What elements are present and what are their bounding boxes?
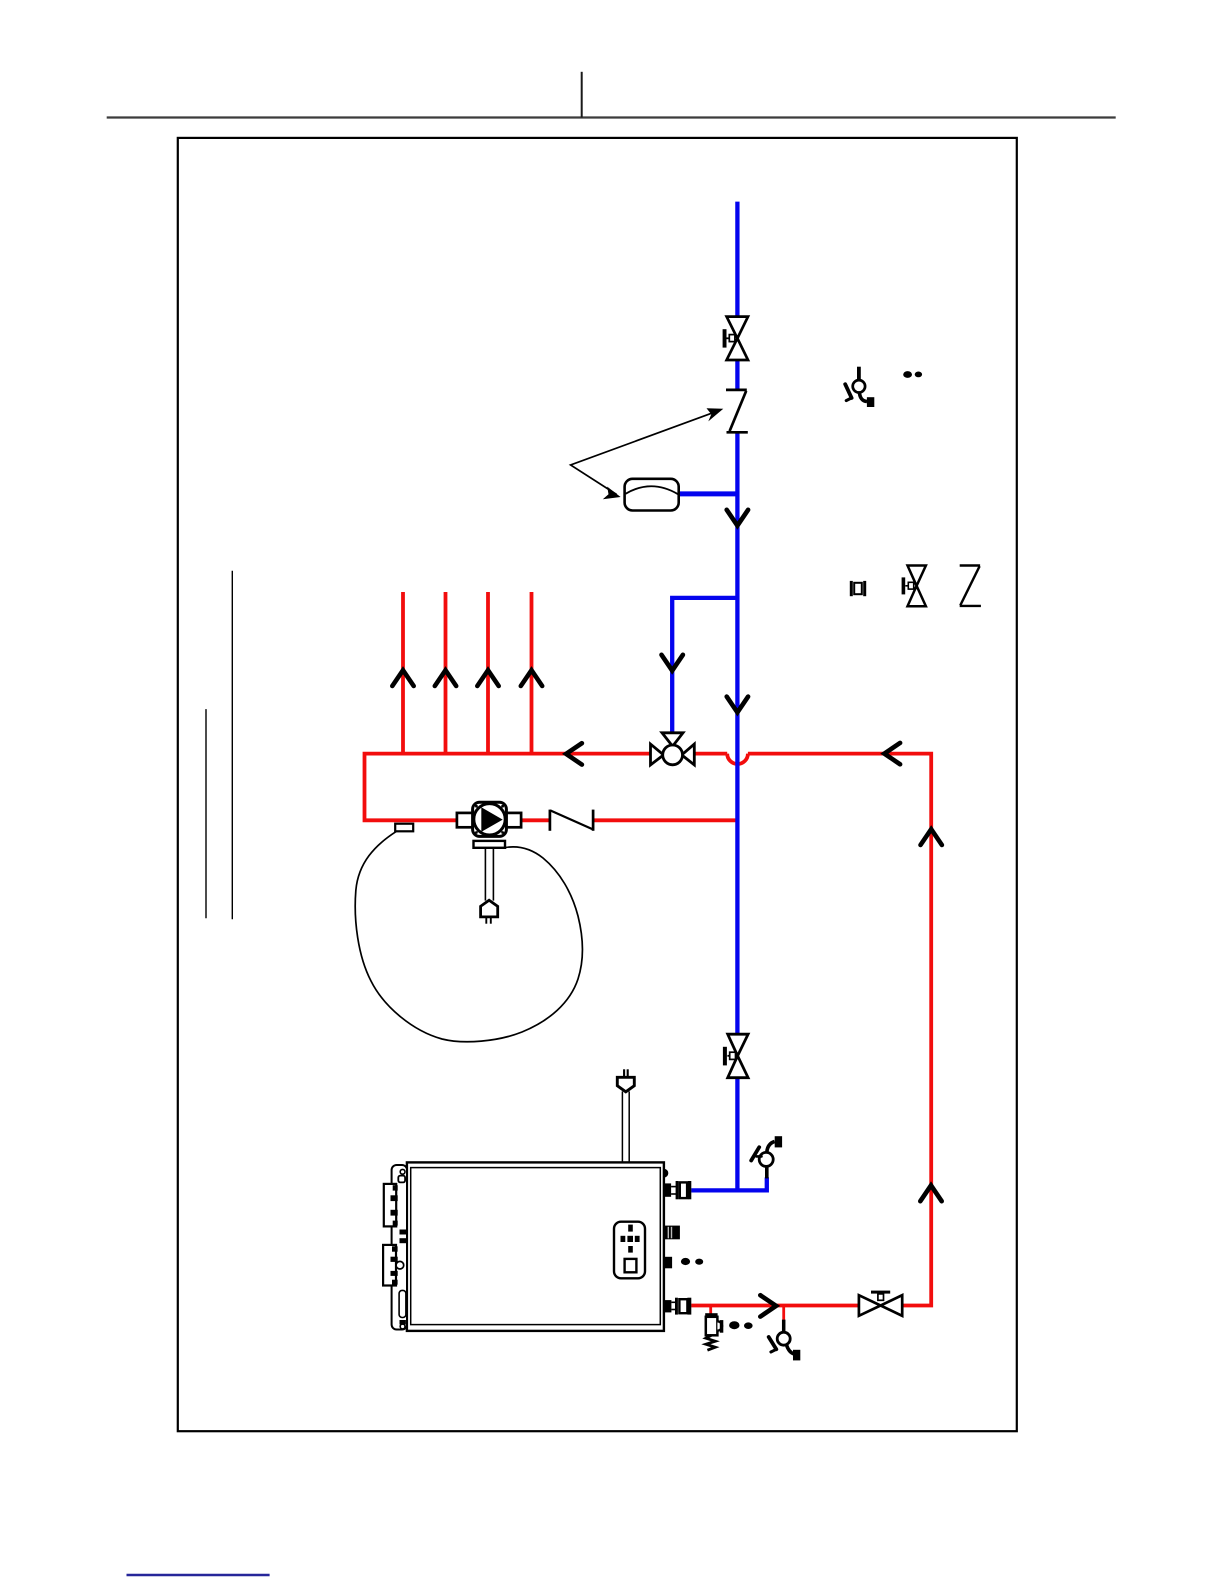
red pipe: hop to 3-way valve <box>694 752 727 756</box>
footer link underline <box>127 1574 270 1577</box>
leftover text rule A <box>231 571 233 920</box>
boiler rear connector block upper <box>384 1184 398 1227</box>
boiler left mounting bracket <box>392 1165 407 1330</box>
legend union symbol <box>850 581 866 596</box>
wall thermostat box on pipe <box>395 824 413 832</box>
blue pipe: union down main drop <box>735 432 739 1034</box>
red supply pipe: relief valve stub <box>709 1306 712 1315</box>
boiler red outlet nipple and union <box>664 1298 691 1315</box>
blue pipe: valve to union <box>735 360 739 390</box>
callout arrows to union and expansion tank <box>571 408 724 499</box>
redacted label marks near boiler fitting <box>681 1258 703 1265</box>
red pipe: pump to check valve <box>521 818 550 822</box>
red riser 4 <box>530 592 534 755</box>
flow arrow blue branch down <box>662 655 683 671</box>
red supply pipe: riser from gate valve up right side and across top <box>748 754 931 1306</box>
blue cold feed: top drop to shutoff valve <box>735 202 739 317</box>
red supply pipe: boiler outlet run y=1305.5 <box>691 1304 859 1308</box>
boiler power cord and plug <box>617 1069 634 1163</box>
boiler rear lower slot <box>399 1290 406 1324</box>
blue pipe: below lower valve to boiler run <box>735 1078 739 1193</box>
redacted label marks near top drain <box>903 371 922 378</box>
flow arrow red bottom right <box>760 1295 776 1316</box>
leftover text rule B <box>205 709 207 918</box>
red pipe hop over blue line <box>727 754 748 764</box>
boiler top right bolt <box>664 1169 668 1178</box>
flow arrow riser 1 <box>392 670 413 686</box>
page top rule <box>107 116 1116 118</box>
legend union fitting Z symbol <box>960 566 981 606</box>
drawing border frame <box>178 138 1017 1431</box>
boiler blue inlet nipple and union <box>664 1181 691 1199</box>
union U1 on cold feed <box>726 390 748 432</box>
boiler lower tab fitting <box>664 1257 672 1269</box>
redacted label marks near relief valve <box>729 1321 753 1329</box>
shutoff valve V1 on cold feed <box>723 317 748 360</box>
lower blue shutoff valve <box>723 1034 748 1078</box>
red riser 2 <box>444 592 448 755</box>
gate valve on return <box>859 1291 902 1316</box>
circulator pump <box>457 802 521 848</box>
boiler drain symbol top right <box>845 367 874 407</box>
pump power cord stem and plug <box>481 848 498 924</box>
red supply pipe: drain stub <box>782 1306 785 1320</box>
boiler drain at outlet (red side) <box>769 1320 801 1361</box>
flow arrow riser 2 <box>435 670 456 686</box>
boiler control panel <box>614 1222 645 1279</box>
boiler drain at inlet (blue) <box>751 1136 782 1178</box>
pump cord loop <box>355 831 582 1041</box>
legend shutoff valve symbol <box>902 566 926 607</box>
flow arrow red return up 1 <box>921 829 942 845</box>
boiler mid capped fitting <box>665 1226 680 1240</box>
flow arrow riser 3 <box>477 670 498 686</box>
check valve <box>550 810 593 831</box>
blue pipe: boiler inlet horizontal and drain riser <box>691 1177 767 1190</box>
flow arrow red return up 2 <box>920 1185 941 1201</box>
flow arrow red supply left <box>566 743 582 764</box>
red pipe: check valve to blue drop tee <box>593 818 739 822</box>
boiler rear connector block lower <box>383 1245 404 1286</box>
flow arrow red return top left <box>884 743 900 764</box>
blue pipe: mixing branch <box>672 598 737 733</box>
blue pipe: expansion tank stub <box>679 491 740 496</box>
flow arrow blue main down lower <box>727 697 748 713</box>
expansion tank <box>625 479 679 511</box>
red riser 1 <box>401 592 405 755</box>
flow arrow blue main down upper <box>727 510 748 526</box>
3-way mixing valve <box>651 733 695 765</box>
flow arrow riser 4 <box>521 670 542 686</box>
boiler rear fasteners mid <box>400 1230 407 1244</box>
red pipe: heating manifold run <box>365 754 651 821</box>
header tick mark <box>581 72 583 118</box>
pressure relief valve <box>705 1313 723 1350</box>
boiler body <box>407 1162 664 1331</box>
red riser 3 <box>486 592 490 755</box>
